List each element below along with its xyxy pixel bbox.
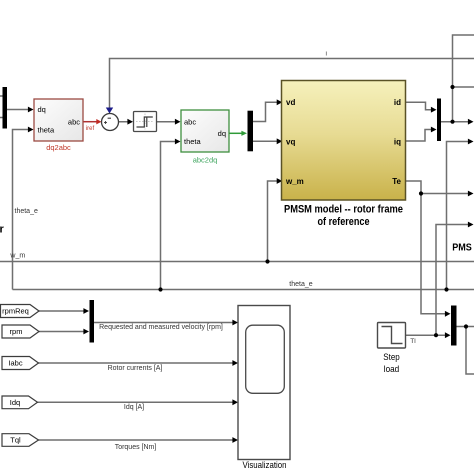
svg-text:PMSM model -- rotor frame: PMSM model -- rotor frame xyxy=(284,204,403,216)
svg-text:Step: Step xyxy=(383,352,400,363)
svg-text:PMS: PMS xyxy=(452,242,472,253)
svg-text:Te: Te xyxy=(392,177,401,186)
svg-text:Torques [Nm]: Torques [Nm] xyxy=(115,444,157,451)
svg-text:rpmReq: rpmReq xyxy=(2,307,29,316)
svg-text:vd: vd xyxy=(286,98,295,107)
svg-text:of reference: of reference xyxy=(318,216,370,228)
svg-text:dq2abc: dq2abc xyxy=(46,143,71,152)
svg-text:abc2dq: abc2dq xyxy=(193,156,218,165)
svg-text:Tl: Tl xyxy=(410,338,416,345)
svg-text:theta_e: theta_e xyxy=(289,281,312,288)
svg-text:Idq [A]: Idq [A] xyxy=(124,404,144,411)
svg-text:Visualization: Visualization xyxy=(243,460,287,471)
svg-text:i: i xyxy=(325,50,326,57)
svg-text:vq: vq xyxy=(286,137,295,146)
svg-text:abc: abc xyxy=(184,117,196,126)
svg-text:Idq: Idq xyxy=(10,398,20,407)
svg-text:w_m: w_m xyxy=(285,177,304,186)
svg-text:rpm: rpm xyxy=(10,327,23,336)
svg-text:theta_e: theta_e xyxy=(15,208,38,215)
svg-text:iref: iref xyxy=(86,126,95,132)
svg-text:r: r xyxy=(0,223,5,235)
svg-text:dq: dq xyxy=(218,129,226,138)
svg-text:w_m: w_m xyxy=(9,252,25,259)
svg-text:theta: theta xyxy=(184,137,202,146)
svg-text:Rotor currents [A]: Rotor currents [A] xyxy=(108,365,163,372)
svg-text:theta: theta xyxy=(38,125,56,134)
svg-text:Iabc: Iabc xyxy=(8,359,22,368)
svg-text:abc: abc xyxy=(68,117,80,126)
svg-text:load: load xyxy=(384,364,400,375)
svg-text:id: id xyxy=(394,98,401,107)
svg-text:Requested and measured velocit: Requested and measured velocity [rpm] xyxy=(99,324,223,331)
svg-text:dq: dq xyxy=(38,105,46,114)
svg-text:Tql: Tql xyxy=(10,436,21,445)
svg-text:iq: iq xyxy=(394,137,401,146)
